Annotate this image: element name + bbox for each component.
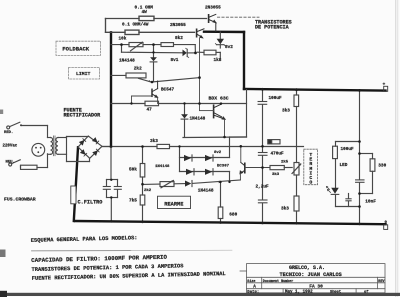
svg-text:of: of [364,290,369,295]
svg-text:3k3: 3k3 [281,207,289,212]
svg-text:4W: 4W [142,10,148,15]
svg-text:2k2: 2k2 [144,188,152,193]
svg-text:2k2: 2k2 [134,66,142,71]
svg-text:FUS.CROWBAR: FUS.CROWBAR [4,196,36,202]
svg-text:330: 330 [378,163,386,168]
svg-text:8k2: 8k2 [175,36,183,41]
svg-text:ESQUEMA GENERAL PARA LOS MODEL: ESQUEMA GENERAL PARA LOS MODELOS: [31,235,138,244]
svg-text:100uF: 100uF [269,96,283,101]
svg-text:680: 680 [229,212,237,217]
svg-text:FUENTE RECTIFICADOR: UN 80% SU: FUENTE RECTIFICADOR: UN 80% SUPERIOR A L… [32,271,226,282]
svg-text:10k: 10k [119,36,127,41]
svg-text:RECTIFICADOR: RECTIFICADOR [64,113,102,119]
svg-text:2N3055: 2N3055 [170,23,186,28]
svg-text:47: 47 [147,107,153,112]
svg-text:+: + [383,82,386,87]
svg-text:0.1 OHM/4W: 0.1 OHM/4W [122,23,149,28]
svg-text:LED: LED [340,163,348,168]
svg-text:BDX 63C: BDX 63C [209,95,229,101]
svg-text:REV: REV [378,280,385,284]
svg-text:CAPACIDAD DE FILTRO: 1000MF PO: CAPACIDAD DE FILTRO: 1000MF POR AMPERIO [31,254,167,264]
svg-text:100uF: 100uF [341,147,355,152]
svg-text:C.FILTRO: C.FILTRO [78,199,103,205]
svg-text:DE POTENCIA: DE POTENCIA [255,25,290,31]
svg-text:1N4148: 1N4148 [198,189,214,194]
svg-text:2,2uF: 2,2uF [256,185,270,190]
svg-text:Size: Size [247,279,255,284]
svg-text:TECNICO: JUAN CARLOS: TECNICO: JUAN CARLOS [280,272,342,278]
svg-text:1N4148: 1N4148 [190,116,206,121]
svg-text:RED.: RED. [4,131,13,135]
svg-text:Sheet: Sheet [330,290,341,295]
svg-text:1N4148: 1N4148 [119,59,135,64]
svg-text:3k3: 3k3 [282,109,290,114]
svg-text:50k: 50k [129,168,137,173]
svg-text:220Vac: 220Vac [3,144,18,148]
svg-text:LIMIT: LIMIT [76,71,91,77]
svg-text:8v2: 8v2 [225,45,233,50]
svg-text:2N3055: 2N3055 [205,6,221,11]
svg-text:GRELCO, S.A.: GRELCO, S.A. [289,265,325,271]
svg-text:FA 30: FA 30 [309,283,323,289]
svg-text:A: A [253,284,256,289]
svg-text:BC547: BC547 [161,87,175,92]
svg-text:May 1, 1992: May 1, 1992 [285,291,313,295]
svg-text:FOLDBACK: FOLDBACK [62,46,89,53]
svg-text:10nF: 10nF [365,199,376,204]
svg-text:7k5: 7k5 [129,199,137,204]
svg-text:REARME: REARME [164,201,183,207]
svg-text:O: O [309,180,312,186]
svg-text:470uF: 470uF [271,151,285,156]
svg-text:BC307: BC307 [217,165,230,169]
svg-text:8v1: 8v1 [171,58,179,63]
svg-text:Date:: Date: [247,291,259,295]
svg-text:NEU.: NEU. [6,160,15,164]
svg-text:1k8: 1k8 [214,58,222,63]
svg-text:TRANSISTORES DE POTENCIA: 1 PO: TRANSISTORES DE POTENCIA: 1 POR CADA 3 A… [31,263,184,273]
svg-text:8v2: 8v2 [214,151,222,155]
svg-text:1N4148: 1N4148 [155,165,170,169]
svg-text:3k3: 3k3 [150,139,158,144]
svg-text:2k5: 2k5 [281,160,289,165]
svg-text:3k3: 3k3 [272,172,280,177]
svg-text:Document Number: Document Number [263,279,294,284]
